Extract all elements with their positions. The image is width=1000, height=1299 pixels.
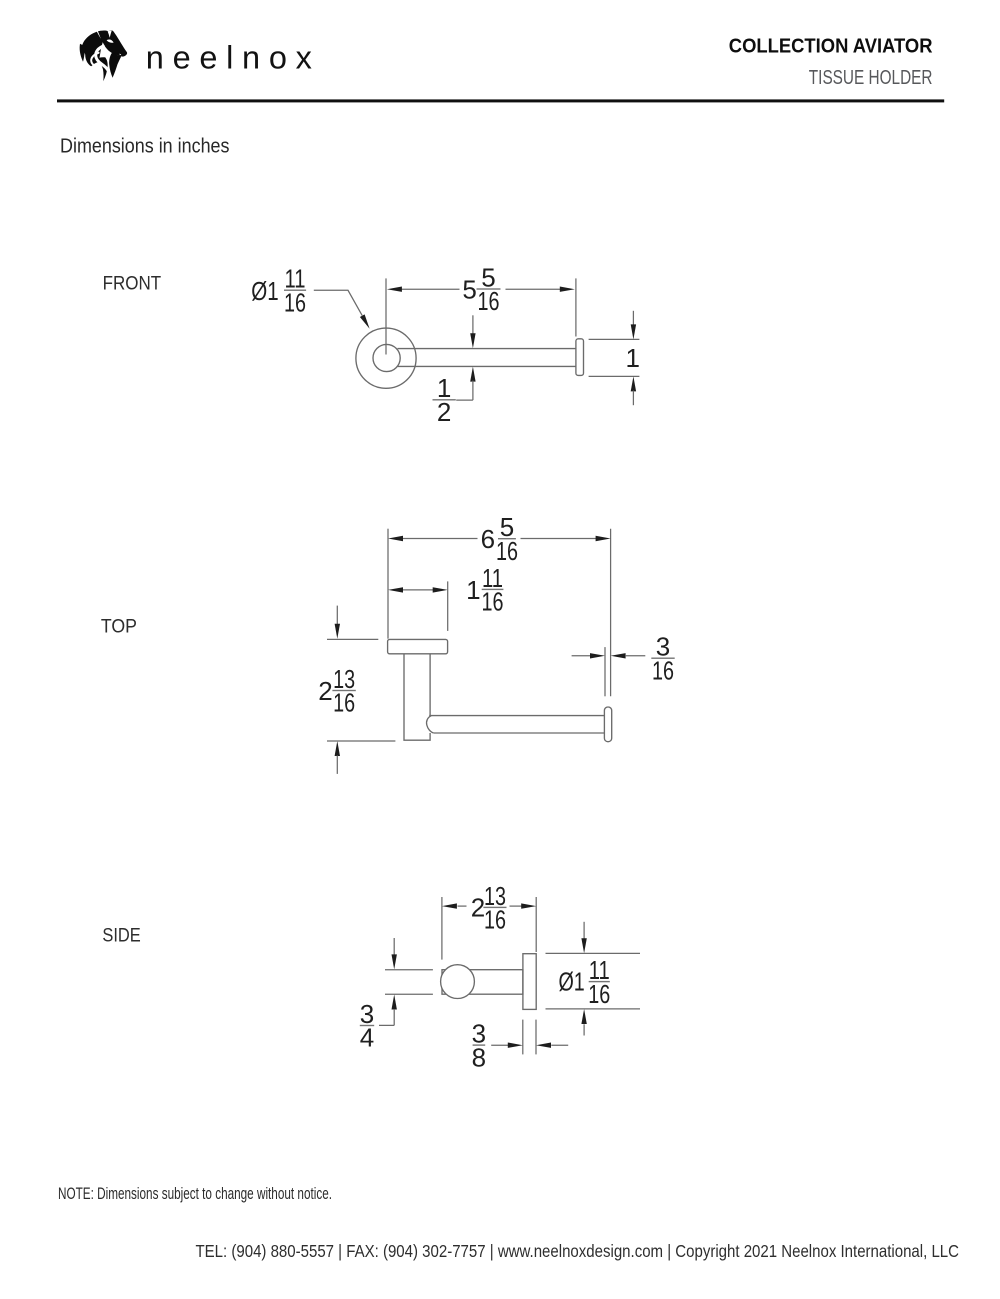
front: dim 1/2 arrow down xyxy=(470,333,475,348)
side: dim fraction 13/16 xyxy=(483,881,506,935)
svg-text:1: 1 xyxy=(466,575,480,605)
top: bar left end arc xyxy=(427,716,434,733)
top: dim 3/16 arrow right xyxy=(590,653,605,658)
svg-text:FRONT: FRONT xyxy=(103,273,162,294)
top: dim 3/16 line left xyxy=(572,655,591,657)
front: dim 1/2 lower line xyxy=(456,381,473,401)
side: dim 2-13/16 line left xyxy=(458,905,467,907)
side: dim 3/8 line right xyxy=(551,1044,568,1046)
top: end disc xyxy=(604,707,611,742)
side: dim 3/4 ext top xyxy=(385,969,433,971)
side: dim 3/8 line left xyxy=(491,1044,508,1046)
svg-text:16: 16 xyxy=(333,688,355,718)
side: dim fraction 3/8 xyxy=(472,1019,486,1073)
front: right extension line xyxy=(575,278,577,336)
svg-text:Ø1: Ø1 xyxy=(251,276,278,306)
svg-text:Dimensions in inches: Dimensions in inches xyxy=(60,135,230,158)
svg-text:NOTE: Dimensions subject to ch: NOTE: Dimensions subject to change witho… xyxy=(58,1185,332,1203)
svg-text:8: 8 xyxy=(472,1042,486,1072)
top: dim 2-13/16 lower line xyxy=(336,756,338,774)
svg-text:16: 16 xyxy=(484,905,506,935)
front: bar outline xyxy=(398,349,576,367)
front: leader line to flange xyxy=(314,290,362,315)
front: bar hub inner circle xyxy=(373,344,400,371)
side: dim diameter ext top xyxy=(546,952,641,954)
top: dim fraction 3/16 xyxy=(651,632,674,686)
front: dim 5-5/16 line left xyxy=(401,288,460,290)
side: dim 3/4 lower line xyxy=(379,1010,394,1026)
top: dim 3/16 line right xyxy=(625,655,645,657)
side: dim 2-13/16 arrow left xyxy=(442,903,457,908)
top: dim fraction 11/16 xyxy=(482,563,504,617)
front: dim 5-5/16 arrow right xyxy=(560,287,575,292)
top: dim 2-13/16 arrow up xyxy=(335,741,340,756)
svg-text:6: 6 xyxy=(481,524,495,554)
front: leader arrowhead xyxy=(360,314,370,328)
side: wall flange plate xyxy=(523,954,536,1010)
front: dim fraction 5/16 xyxy=(477,262,501,316)
top: dim 1-11/16 line xyxy=(402,589,434,591)
svg-text:TOP: TOP xyxy=(101,616,137,637)
side: dim diameter upper line xyxy=(583,922,585,939)
front: end cap xyxy=(576,339,584,376)
top: dim 6-5/16 line left xyxy=(402,538,478,540)
top: dim 2-13/16 ext bottom xyxy=(327,740,395,742)
front: dim 5-5/16 arrow left xyxy=(387,287,402,292)
svg-text:neelnox: neelnox xyxy=(146,39,321,75)
side: dim fraction 3/4 xyxy=(360,999,374,1053)
top: dim 3/16 arrow left xyxy=(611,653,626,658)
side: dim 2-13/16 arrow right xyxy=(521,903,536,908)
front: dim fraction 11/16 (diameter) xyxy=(284,264,306,318)
svg-text:16: 16 xyxy=(588,979,610,1009)
header rule xyxy=(57,99,944,102)
front: dim 1/2 arrow up xyxy=(470,367,475,382)
top: dim 1-11/16 extension xyxy=(447,581,449,631)
front: dim 1/2 upper line xyxy=(472,315,474,334)
top: dim 2-13/16 ext top xyxy=(327,638,378,640)
side: post body xyxy=(442,970,523,995)
top: dim fraction 13/16 xyxy=(332,664,355,718)
top: wall flange plate xyxy=(388,639,448,653)
svg-text:2: 2 xyxy=(318,676,332,706)
svg-text:COLLECTION AVIATOR: COLLECTION AVIATOR xyxy=(729,36,933,58)
top: dim 6-5/16 line right xyxy=(521,538,597,540)
top: dim 2-13/16 arrow down xyxy=(335,624,340,639)
side: dim 3/4 ext bottom xyxy=(385,993,433,995)
front: dim fraction 1/2 xyxy=(433,373,456,427)
side: dim diameter arrow down xyxy=(581,938,586,953)
side: dim 3/8 ext right xyxy=(535,1020,537,1055)
svg-text:5: 5 xyxy=(462,274,476,304)
side: dim 3/8 arrow left xyxy=(536,1043,551,1048)
svg-text:SIDE: SIDE xyxy=(102,925,140,946)
side: dim diameter lower line xyxy=(583,1024,585,1035)
side: dim 3/4 upper line xyxy=(393,938,395,955)
top: left extension line xyxy=(387,529,389,639)
top: dim 3/16 ext left xyxy=(604,647,606,696)
top: dim 2-13/16 upper line xyxy=(336,606,338,625)
top: bar outline xyxy=(429,716,604,733)
side: dim 2-13/16 ext right xyxy=(535,897,537,952)
svg-text:16: 16 xyxy=(482,587,504,617)
top: post outline xyxy=(404,654,430,740)
front: dim 1 arrow down xyxy=(631,324,636,339)
front: dim 1 upper line xyxy=(632,311,634,326)
svg-text:TISSUE HOLDER: TISSUE HOLDER xyxy=(809,67,933,89)
svg-text:1: 1 xyxy=(625,343,639,373)
svg-text:16: 16 xyxy=(496,536,518,566)
front: flange outer circle xyxy=(356,328,416,388)
top: dim 6-5/16 arrow left xyxy=(388,536,403,541)
svg-text:Ø1: Ø1 xyxy=(558,967,584,997)
side: dim 3/8 ext left xyxy=(522,1020,524,1055)
svg-text:4: 4 xyxy=(360,1023,374,1053)
side: dim fraction 11/16 (diameter) xyxy=(588,955,610,1009)
logo: neelnox horse head xyxy=(80,31,127,82)
side: dim 3/4 arrow up xyxy=(392,995,397,1010)
side: bar end circle xyxy=(441,965,475,999)
svg-text:16: 16 xyxy=(652,655,674,685)
side: dim 3/4 arrow down xyxy=(392,954,397,969)
front: dim 1 ext bottom xyxy=(589,375,640,377)
front: dim 1 lower line xyxy=(632,391,634,406)
svg-text:16: 16 xyxy=(478,286,500,316)
side: dim diameter ext bottom xyxy=(546,1008,641,1010)
svg-text:16: 16 xyxy=(284,287,306,317)
side: dim 2-13/16 ext left xyxy=(441,897,443,960)
side: dim 2-13/16 line right xyxy=(510,905,522,907)
front: center extension line xyxy=(385,278,387,354)
top: right extension line xyxy=(610,529,612,697)
front: dim 1 arrow up xyxy=(631,376,636,391)
side: dim diameter arrow up xyxy=(581,1009,586,1024)
top: dim 1-11/16 arrow right xyxy=(433,587,448,592)
svg-text:TEL: (904) 880-5557 | FAX: (90: TEL: (904) 880-5557 | FAX: (904) 302-775… xyxy=(196,1241,960,1261)
side: dim 3/8 arrow right xyxy=(508,1043,523,1048)
top: dim fraction 5/16 xyxy=(496,512,518,566)
top: dim 1-11/16 arrow left xyxy=(388,587,403,592)
front: dim 1 ext top xyxy=(589,338,640,340)
svg-text:2: 2 xyxy=(437,397,451,427)
front: dim 5-5/16 line right xyxy=(506,288,561,290)
top: dim 6-5/16 arrow right xyxy=(596,536,611,541)
